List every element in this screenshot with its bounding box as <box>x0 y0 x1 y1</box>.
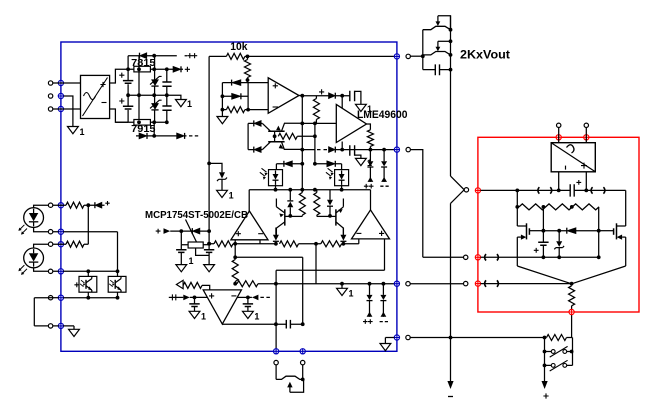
capacitor C4 <box>162 106 171 110</box>
wire terminal row to red box upper <box>410 150 463 258</box>
ground G5 <box>356 158 373 168</box>
terminal T5 open <box>406 147 410 151</box>
diode D17 column down <box>327 190 333 216</box>
plus mark C1 <box>119 73 124 78</box>
wire to supply ground <box>167 95 181 99</box>
wire LME input row <box>302 122 336 124</box>
diode D3 <box>139 133 147 139</box>
port P10 bottom edge <box>274 349 279 354</box>
junction dot jfet3 <box>301 378 305 382</box>
wire tall output rail <box>450 16 452 381</box>
resistor R1 10k <box>226 53 244 59</box>
wire R10 stubs <box>301 190 303 217</box>
capacitor C13 <box>570 180 581 197</box>
wire rail to red box <box>410 283 463 285</box>
diode D14 <box>284 161 293 167</box>
resistor R2 <box>245 60 251 78</box>
wire opamp output row <box>222 323 302 325</box>
terminal row A open <box>48 203 52 207</box>
wire optobox1 bottom stem <box>275 185 277 190</box>
diode D9 <box>254 147 261 153</box>
diode column DB below V- row <box>380 150 388 187</box>
port P12 on blue edge <box>394 335 399 340</box>
wire cap row <box>423 69 451 71</box>
zener diode Z3 <box>217 172 227 181</box>
wire DAC stems top <box>559 128 587 143</box>
diode D15 <box>327 161 336 167</box>
port row D on blue edge <box>58 269 63 274</box>
wire vertical rail x167 <box>166 69 168 122</box>
wire row E left <box>48 297 58 299</box>
ground G4 <box>356 104 373 114</box>
diode D18 <box>567 228 576 234</box>
terminal row C open <box>48 242 52 246</box>
wire J2 top loop <box>438 40 451 42</box>
wire row A <box>53 204 105 206</box>
wire pin2 to ground <box>64 96 73 127</box>
terminal J1 pin3 <box>48 107 52 111</box>
port P6 red box left <box>475 188 480 193</box>
wire row E <box>63 297 117 299</box>
wire Q3 base row <box>290 215 302 217</box>
wire regulator input row <box>170 230 209 232</box>
minus-minus net flag <box>189 135 198 137</box>
transistor Q1 cross pair upper <box>262 123 302 131</box>
dash net marker <box>260 296 270 298</box>
wire switch left rail <box>544 338 546 382</box>
wire 7915 row <box>115 121 166 123</box>
resistor R7 <box>214 241 233 247</box>
diode D2 <box>173 66 181 72</box>
resistor R15 <box>547 335 567 341</box>
terminal T7 open <box>464 255 468 259</box>
capacitor C1 <box>123 81 133 84</box>
wire diode pair row1 <box>222 82 268 84</box>
JFET J3 <box>276 376 303 392</box>
wire J1 top loop <box>438 16 451 30</box>
svg-text:2KxVout: 2KxVout <box>460 48 510 62</box>
wire node row right corner down <box>370 190 372 210</box>
port P8 on blue edge <box>394 281 399 286</box>
JFET J1 <box>423 16 451 30</box>
output arrow down <box>447 381 453 397</box>
wire inside red to caps <box>481 256 599 258</box>
wire supply top rail <box>128 55 187 57</box>
svg-text:1: 1 <box>229 191 234 201</box>
wire red node row <box>481 190 626 226</box>
wire LED2 bottom lead <box>34 268 49 272</box>
wire gate row <box>543 230 598 232</box>
terminal row B open <box>48 230 52 234</box>
wire y270 feedback <box>276 269 384 271</box>
diode D16 column up <box>287 190 293 216</box>
wire center column upper <box>314 123 316 163</box>
wire y257 link <box>235 257 303 324</box>
port row A on blue edge <box>58 203 63 208</box>
wire top signal row <box>209 55 394 57</box>
junction dots lower opamp <box>193 296 305 327</box>
wire opamp1 minus row <box>222 109 268 111</box>
wire upper cell row right <box>315 163 342 165</box>
wire T3 minus stub <box>259 240 261 244</box>
zener diode Z2 <box>150 100 162 110</box>
wire switch right rail <box>572 338 574 366</box>
op-amp U7 triangle up <box>352 210 390 239</box>
junction dots opamp1 input <box>221 55 251 112</box>
terminal T11 open <box>301 360 305 364</box>
wire x235 drop <box>234 244 236 284</box>
port row F on blue edge <box>58 323 63 328</box>
transistor Q2 cross pair lower <box>262 142 302 150</box>
diode column DA below V- row <box>364 150 374 189</box>
resistor R20 <box>66 241 84 247</box>
resistor R13 <box>232 260 238 282</box>
input arrow marker <box>176 280 183 288</box>
junction dots left section <box>86 203 119 299</box>
resistor R8 <box>280 241 299 247</box>
wire x316 drop <box>315 244 317 284</box>
wire vertical rail x154 upper <box>154 56 156 123</box>
plus mark C2 <box>119 98 124 103</box>
wire right end column <box>598 207 600 257</box>
red output-stage box outline <box>478 137 639 312</box>
ground G1 <box>68 127 85 138</box>
wire DAC stems bottom <box>559 172 587 191</box>
capacitor C7 <box>435 64 439 75</box>
LED L2 <box>18 248 43 275</box>
phototransistor box O3 <box>79 276 97 292</box>
wire LME V- stub <box>341 142 343 150</box>
wire hop marker 2 <box>485 280 499 286</box>
svg-text:10k: 10k <box>230 41 248 53</box>
svg-text:LME49600: LME49600 <box>357 109 408 121</box>
capacitor C8 <box>176 245 186 265</box>
regulator U3 7915 body <box>134 120 151 126</box>
resistor R16 <box>519 204 559 210</box>
wire minus input row <box>237 296 252 298</box>
terminal row E open <box>48 296 52 300</box>
diode D11 <box>192 228 200 234</box>
LED L1 <box>18 208 43 235</box>
terminal T4 open <box>406 54 410 58</box>
wire T4 plus stub long <box>384 239 386 270</box>
diode D5 <box>232 80 241 86</box>
capacitor C14 <box>534 242 549 257</box>
port P3 on blue edge <box>58 106 63 111</box>
wire opto emitters <box>88 292 117 298</box>
resistor R18 <box>569 286 575 306</box>
ground G8 <box>217 190 234 200</box>
terminal T8 open <box>406 282 410 286</box>
port P14 red top <box>584 135 589 140</box>
DAC U9 box <box>551 143 595 172</box>
wire row D <box>53 270 118 272</box>
port P15 red bottom <box>569 309 574 314</box>
wire T3 plus stub <box>234 240 236 244</box>
wire rail gnd stub <box>341 284 343 289</box>
wire R12 to opamp plus <box>202 285 210 290</box>
ground G12 <box>380 344 391 351</box>
resistor R3 <box>226 107 244 113</box>
wire 7815 row <box>128 68 183 70</box>
transformer/rectifier T1 <box>81 75 110 118</box>
resistor R11 <box>314 193 320 216</box>
wire R6 stub <box>369 146 371 149</box>
wire R4 stubs <box>315 96 317 124</box>
wire LME V+ stub <box>341 96 343 109</box>
svg-text:1: 1 <box>187 99 192 109</box>
port row C on blue edge <box>58 242 63 247</box>
wire reg in drop <box>181 231 188 245</box>
buffer U4 LME49600 triangle <box>336 105 366 143</box>
capacitor C12 <box>286 320 290 329</box>
svg-text:7815: 7815 <box>131 58 156 69</box>
op-amp U1 triangle <box>268 78 299 114</box>
wire X-cell center link <box>274 131 276 142</box>
wire X-cell row2 <box>248 149 262 151</box>
wire hop marker 3 <box>538 187 552 193</box>
junction dots supply <box>126 54 169 138</box>
terminal J1 pin2 <box>48 94 52 98</box>
ground G9 <box>189 311 206 321</box>
ground G3 <box>217 117 228 124</box>
wire hop marker <box>485 254 499 260</box>
wire row C <box>53 205 89 244</box>
wire R11 stubs <box>316 190 318 217</box>
wire row F <box>53 326 74 329</box>
ground G10 <box>243 311 260 321</box>
resistor R6 <box>367 130 373 147</box>
terminal T6 open <box>464 188 468 192</box>
wire plus input row <box>190 296 208 298</box>
junction dots rails <box>233 255 385 285</box>
terminal T13 open <box>557 123 561 127</box>
plus mark opto <box>74 282 79 287</box>
wire diode pair row2 <box>222 95 248 97</box>
wire vminus row <box>209 243 359 245</box>
port P9 red box left <box>475 281 480 286</box>
junction dots center <box>273 94 386 152</box>
port P2 on blue edge <box>58 93 63 98</box>
plus-plus net flag <box>187 53 197 58</box>
zener diode Z1 <box>150 76 162 86</box>
optocoupler diode box O1 <box>260 168 283 185</box>
wire X-cell left link <box>247 123 249 149</box>
wire 7915 output row <box>136 135 187 137</box>
diode D7 <box>329 93 336 99</box>
wire row E to F outside <box>34 298 48 326</box>
resistor R14 <box>237 281 258 287</box>
terminal row F open <box>48 324 52 328</box>
port P1 on blue edge <box>58 80 63 85</box>
source arrow plus <box>156 228 171 234</box>
MOSFET M2 <box>599 223 626 239</box>
ground G7 <box>204 265 215 272</box>
switch S1 <box>545 346 573 357</box>
wire Q4 base row <box>317 215 330 217</box>
transistor Q3 <box>276 199 290 236</box>
wire R5 to center column <box>297 135 315 137</box>
svg-text:1: 1 <box>80 127 85 137</box>
wire diode pair right link <box>247 83 249 110</box>
diode D12 column <box>273 228 279 242</box>
diode D1 <box>140 53 147 59</box>
capacitor C3 <box>162 82 171 86</box>
wire left mosfet rail <box>516 190 518 266</box>
wire jfet3 left lead <box>275 365 277 380</box>
port P13 red top <box>556 135 561 140</box>
terminal T9 open <box>464 281 468 285</box>
ground G6 <box>176 256 194 272</box>
wire node row <box>249 189 370 191</box>
svg-text:7915: 7915 <box>131 124 156 135</box>
wire from red box bottom <box>571 315 573 338</box>
plus net flag <box>185 67 190 72</box>
junction dots 2KxV <box>421 28 453 72</box>
resistor R17 <box>559 204 599 210</box>
capacitor C9 <box>204 244 214 265</box>
wire x276 column <box>275 270 277 351</box>
terminal J1 pin1 <box>48 81 52 85</box>
diode D6 <box>232 93 241 99</box>
resistor R4 <box>313 99 319 120</box>
plus net flag row A <box>105 201 109 205</box>
diode D4 <box>177 133 185 139</box>
arrow marker left <box>252 295 259 301</box>
wire gnd stub <box>221 110 223 117</box>
diode D8 <box>254 120 261 126</box>
ground G11 <box>337 288 354 298</box>
terminal T14 open <box>584 123 588 127</box>
wire V+ row <box>302 95 349 97</box>
resistor R19 <box>66 202 84 208</box>
wire left long rail <box>208 56 210 243</box>
op-amp U6 triangle up <box>231 211 268 240</box>
wire hop marker 4 <box>591 187 605 193</box>
wire left supply rail upper <box>127 56 129 123</box>
capacitor C10 <box>189 297 199 311</box>
resistor R12 <box>183 282 202 288</box>
wire row B <box>53 232 118 277</box>
wire optobox1 top stem <box>275 164 277 170</box>
wire zener branch <box>209 163 222 190</box>
wire upper cell row left <box>276 163 302 165</box>
transistor Q4 <box>330 199 343 236</box>
terminal row D open <box>48 269 52 273</box>
resistor R10 <box>299 193 305 216</box>
ground G13 <box>69 329 80 336</box>
wire T1 out+ <box>110 69 129 83</box>
phototransistor box O4 <box>108 276 126 292</box>
label leader line <box>186 220 197 243</box>
wire V- row <box>302 149 394 151</box>
wire LME output <box>367 124 371 130</box>
optocoupler diode box O2 <box>326 168 349 185</box>
port P5 on blue edge <box>394 147 399 152</box>
wire diode pair left link <box>221 83 223 110</box>
junction dots vminus row <box>207 242 345 246</box>
resistor R5 <box>278 133 297 139</box>
regulator U2 7815 body <box>134 66 151 72</box>
wire jfet3 right lead <box>302 365 304 380</box>
wire jfet3 loop <box>290 379 304 392</box>
wire opamp1 out column <box>299 96 302 191</box>
wire mid supply row <box>128 94 167 96</box>
JFET J2 <box>423 41 451 55</box>
wire bottom rail <box>235 283 394 285</box>
wire right mosfet rail <box>625 237 627 266</box>
terminal T12 open <box>406 335 410 339</box>
ground G2 <box>176 99 193 109</box>
wire 7915 drop <box>153 122 155 136</box>
wire reg gnd loop <box>196 248 210 255</box>
port row B on blue edge <box>58 229 63 234</box>
diode column DC <box>363 284 373 324</box>
wire pin3 to transformer <box>53 108 81 110</box>
switch S2 <box>545 360 573 371</box>
wire node row left corner down <box>248 190 250 211</box>
wire LED1 bottom lead <box>34 228 49 232</box>
capacitor C5 with ground hook <box>350 91 361 105</box>
svg-text:1: 1 <box>189 256 194 266</box>
svg-text:1: 1 <box>349 289 354 299</box>
MOSFET M1 <box>517 223 543 239</box>
wire LED2 top lead <box>34 244 49 248</box>
wire optobox2 bottom stem <box>341 185 343 190</box>
junction dots regulator <box>179 162 211 246</box>
wire X-cell row1 <box>248 122 262 124</box>
svg-text:MCP1754ST-5002E/CB: MCP1754ST-5002E/CB <box>145 209 248 221</box>
wire opto1 collector <box>87 271 89 276</box>
wire pin1 to transformer <box>53 82 81 84</box>
regulator U5 MCP1754 body <box>188 242 203 248</box>
port P11 bottom edge <box>300 349 305 354</box>
wire bottom long row <box>410 337 572 339</box>
wire R2 stub <box>247 56 249 82</box>
svg-text:1: 1 <box>201 312 206 322</box>
diode D13 column <box>340 228 346 242</box>
wire vertical rail x139 <box>138 56 140 123</box>
capacitor C2 <box>123 106 133 109</box>
wire top terminal to network <box>410 55 422 57</box>
junction dots node row <box>274 162 344 218</box>
capacitor C11 <box>243 297 253 311</box>
diode D10 <box>329 147 336 153</box>
wire cap column <box>542 207 544 242</box>
wire LED1 top lead <box>34 205 49 208</box>
wire R18 stubs <box>571 284 573 312</box>
wire reg out <box>203 244 209 246</box>
wire gnd stub inside <box>385 338 394 344</box>
wire optobox2 top stem <box>341 164 343 170</box>
plus net flag V+ <box>319 89 324 94</box>
diode column DD <box>380 284 388 322</box>
junction dots bottom right <box>449 336 574 368</box>
op-amp U8 triangle down <box>203 290 241 324</box>
V merge wires <box>517 266 625 284</box>
wire T1 out- <box>110 109 129 122</box>
port P7 red box left <box>475 255 480 260</box>
capacitor C6 with ground hook <box>350 145 361 158</box>
port row E on blue edge <box>58 295 63 300</box>
wire T4 minus stub <box>358 239 360 244</box>
port P4 top right on blue edge <box>394 54 399 59</box>
diode D19 <box>95 202 102 208</box>
blue dashed main board outline <box>61 42 397 351</box>
supply arrow down <box>542 381 549 399</box>
svg-text:1: 1 <box>254 312 259 322</box>
plus source marker row <box>169 294 190 300</box>
